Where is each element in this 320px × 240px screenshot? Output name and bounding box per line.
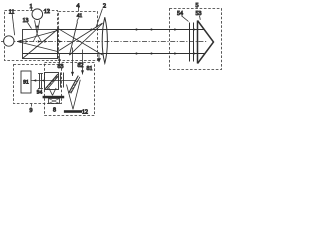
label 4 bbox=[76, 3, 80, 12]
beamsplitter box 83 bbox=[45, 73, 59, 90]
objective lens 2 bbox=[102, 17, 107, 63]
label 2 bbox=[96, 3, 106, 29]
svg-text:91: 91 bbox=[23, 80, 29, 86]
focus V onto detector bar 1 bbox=[49, 88, 53, 95]
lens 54 bbox=[189, 23, 191, 62]
svg-text:11: 11 bbox=[9, 10, 15, 16]
top beam bbox=[58, 29, 204, 31]
fold mirror 82 bbox=[69, 76, 79, 94]
enclosure box 1 bbox=[5, 11, 58, 61]
beamsplitter plate 41 bbox=[70, 22, 78, 56]
arrows on top beam bbox=[91, 28, 94, 31]
beamsplitter cube 13 bbox=[23, 30, 58, 59]
rays inside cube 13 bbox=[18, 31, 58, 42]
svg-text:2: 2 bbox=[103, 3, 106, 10]
focus V onto detector bar 2 bbox=[67, 85, 74, 110]
detector bar 1 bbox=[43, 96, 65, 99]
enclosure box 5 bbox=[170, 9, 222, 70]
down beam d bbox=[98, 53, 100, 62]
arrow into axis (left) bbox=[17, 40, 21, 43]
down beam b bbox=[82, 50, 84, 75]
detector bar 2 bbox=[64, 110, 82, 113]
photodetector circle 12 bbox=[32, 9, 43, 20]
svg-text:41: 41 bbox=[77, 13, 83, 19]
wave plate bbox=[60, 73, 62, 88]
svg-text:9: 9 bbox=[30, 108, 33, 114]
enclosure box 4 bbox=[59, 12, 98, 61]
svg-text:94: 94 bbox=[37, 90, 43, 96]
detector box 91 bbox=[21, 71, 31, 93]
label 5 bbox=[195, 2, 198, 9]
down beam a bbox=[72, 48, 74, 77]
svg-text:83: 83 bbox=[58, 64, 64, 70]
enclosure box 9 bbox=[14, 65, 62, 104]
crossing rays in box 4 bbox=[58, 28, 103, 55]
svg-text:1: 1 bbox=[29, 3, 32, 10]
svg-text:12: 12 bbox=[44, 9, 50, 15]
arrows on axis bbox=[25, 40, 28, 43]
svg-text:82: 82 bbox=[78, 63, 84, 69]
down beam c bbox=[59, 54, 61, 64]
down arrow on 12 beam bbox=[36, 26, 39, 29]
beam to 91 bbox=[32, 80, 76, 82]
laser/detector circle 11 bbox=[4, 36, 14, 46]
retroreflector prism 53 bbox=[198, 21, 214, 64]
svg-text:81: 81 bbox=[87, 66, 93, 72]
svg-text:53: 53 bbox=[196, 11, 202, 17]
label 1 bbox=[29, 3, 32, 11]
svg-text:12: 12 bbox=[82, 110, 88, 116]
connector box with X bbox=[49, 99, 60, 104]
enclosure box 8 bbox=[45, 63, 95, 116]
bottom beam bbox=[23, 53, 205, 55]
optical axis bbox=[1, 41, 207, 43]
arrows on bottom beam bbox=[136, 52, 139, 55]
beam cone from 12 down into cube bbox=[35, 20, 38, 34]
lens 94 bbox=[39, 74, 41, 89]
svg-text:8: 8 bbox=[53, 108, 56, 114]
